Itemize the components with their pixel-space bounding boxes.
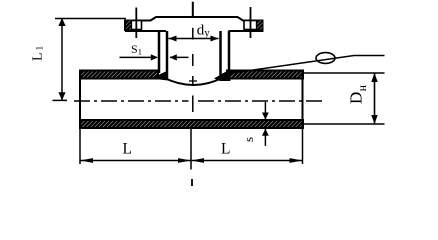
dimension s: upper arrow	[262, 102, 269, 120]
dimension L1: bottom extension tick	[53, 99, 68, 101]
dimension S1: right arrow line	[170, 54, 189, 60]
left weld fillet (filled)	[151, 71, 169, 81]
branch centerline cross dash at pipe axis	[192, 96, 194, 113]
svg-text:L: L	[221, 141, 230, 158]
main pipe bottom wall (hatched)	[80, 120, 303, 128]
main pipe right end line	[302, 71, 304, 129]
dimension S1: left arrow line	[120, 54, 158, 60]
branch centerline continuation below (dash)	[191, 179, 193, 186]
right weld fillet (filled)	[214, 70, 231, 82]
branch left inner wall	[166, 31, 169, 79]
svg-text:L: L	[123, 141, 132, 158]
main pipe left end line	[79, 71, 81, 129]
branch right inner wall	[219, 31, 222, 79]
dimension Dn: bottom extension line	[304, 123, 385, 125]
branch right outer wall	[228, 31, 231, 73]
svg-text:L: L	[31, 52, 46, 61]
dimension Dn: vertical dimension line with arrows	[371, 73, 377, 124]
dimension Dn: top extension line	[304, 72, 385, 74]
svg-text:1: 1	[36, 46, 46, 51]
svg-text:D: D	[347, 92, 366, 104]
weld symbol ellipse	[316, 53, 335, 64]
flange left bolt axis	[135, 8, 137, 39]
dimension L: right extension line	[302, 128, 304, 164]
dimension L: horizontal dimension line with arrows	[80, 158, 303, 163]
dimension dy: line with outward arrows	[169, 36, 219, 42]
dimension L1: vertical dimension line with arrows	[58, 18, 65, 101]
weld leader line	[222, 56, 385, 75]
flange right bolt axis	[250, 7, 252, 38]
svg-text:н: н	[357, 85, 369, 91]
main pipe top wall left section (hatched)	[80, 71, 158, 79]
flange ring plate	[125, 17, 263, 31]
dimension L1: top extension line	[55, 18, 126, 20]
branch left outer wall	[158, 31, 161, 73]
flange right bolt (hatched section)	[244, 21, 263, 30]
svg-text:s: s	[241, 137, 256, 142]
branch vertical centerline (dash-dot segments)	[192, 2, 194, 17]
main pipe top wall right section (hatched)	[227, 71, 303, 79]
branch opening saddle arc	[164, 78, 224, 86]
flange left bolt (hatched section)	[126, 21, 142, 30]
dimension L: middle extension line	[190, 128, 192, 170]
branch centerline cross tick	[189, 80, 197, 82]
dimension L: left extension line	[79, 128, 81, 164]
pipe horizontal centerline (dash-dot)	[74, 100, 189, 102]
svg-text:у: у	[204, 27, 210, 39]
dimension s: lower arrow	[262, 129, 269, 146]
